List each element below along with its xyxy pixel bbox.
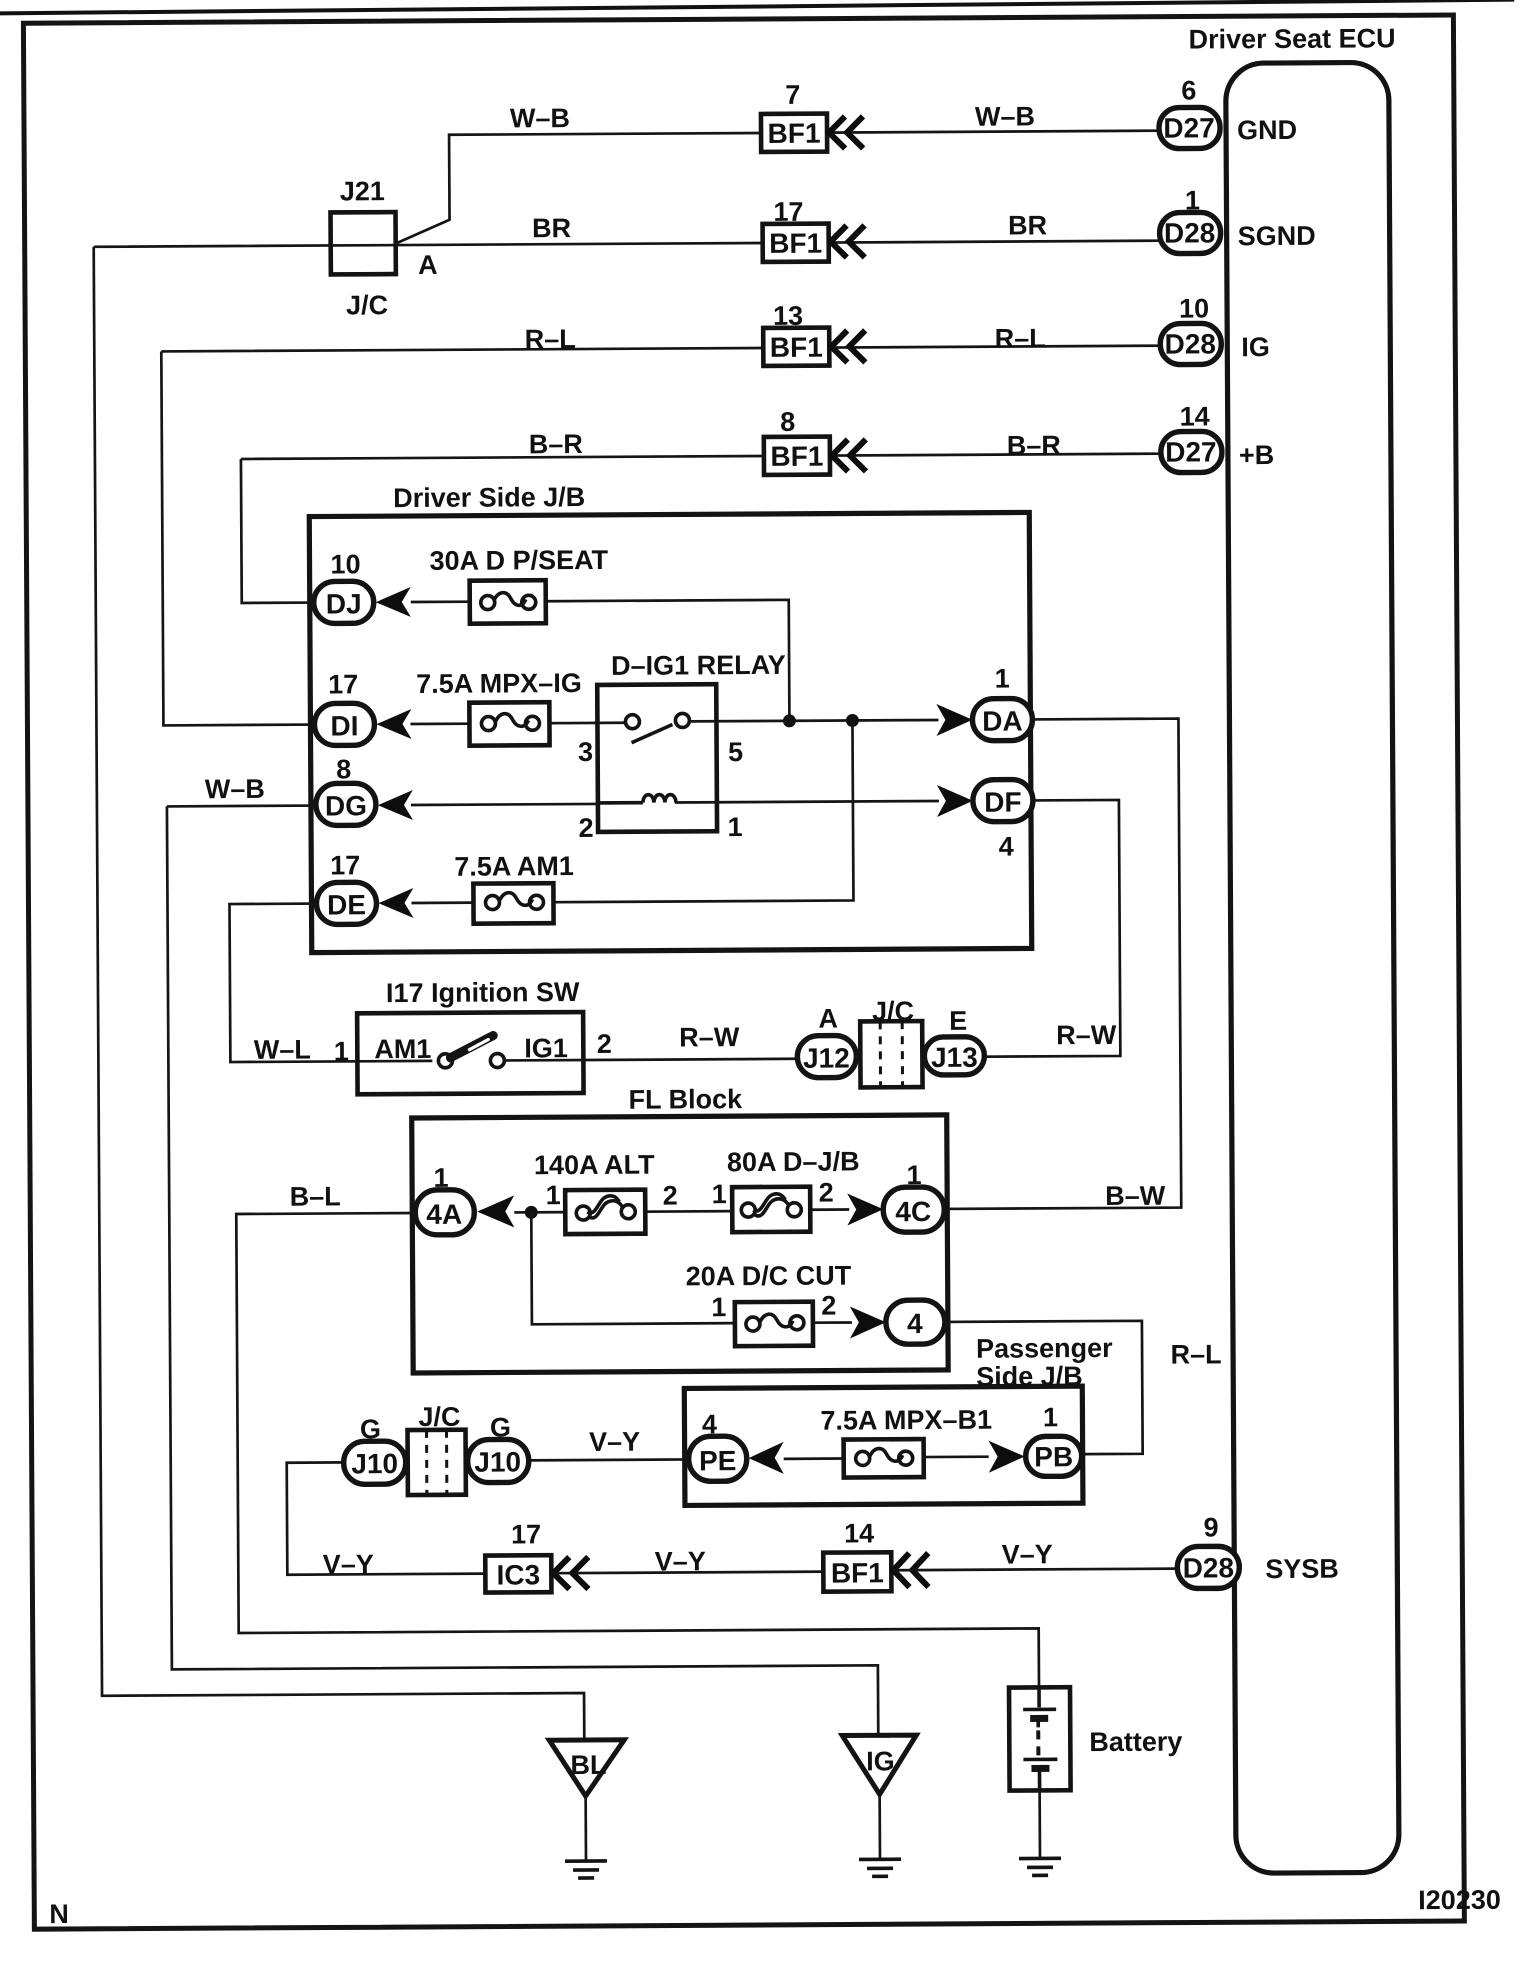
svg-text:DF: DF xyxy=(984,786,1022,817)
wire DJ row fuse to junction xyxy=(411,600,790,720)
svg-text:14: 14 xyxy=(1180,401,1210,431)
svg-text:DE: DE xyxy=(327,889,366,920)
connector BF1 pin 7 xyxy=(761,80,827,152)
arrow at DE xyxy=(378,888,413,918)
svg-text:2: 2 xyxy=(821,1291,836,1321)
svg-text:R–L: R–L xyxy=(995,323,1046,353)
wire V-Y BF1 to SYSB xyxy=(892,1569,1177,1571)
svg-text:B–W: B–W xyxy=(1105,1181,1166,1211)
svg-text:D28: D28 xyxy=(1164,217,1216,248)
svg-text:R–W: R–W xyxy=(1056,1020,1117,1050)
svg-text:W–B: W–B xyxy=(205,774,265,804)
svg-text:SYSB: SYSB xyxy=(1265,1554,1339,1584)
svg-text:1: 1 xyxy=(906,1160,921,1190)
svg-text:8: 8 xyxy=(780,407,795,437)
arrow at 4C xyxy=(847,1193,883,1225)
svg-text:4: 4 xyxy=(907,1308,923,1339)
connector BF1 pin 17 xyxy=(762,197,828,262)
svg-text:7.5A MPX–B1: 7.5A MPX–B1 xyxy=(820,1405,992,1436)
svg-text:+B: +B xyxy=(1239,440,1274,470)
svg-text:A: A xyxy=(818,1004,838,1034)
pin DG 8 xyxy=(316,754,376,825)
svg-text:2: 2 xyxy=(819,1178,834,1208)
fusible link 140A ALT xyxy=(534,1149,678,1234)
wire B-R down to DJ xyxy=(241,459,316,603)
svg-text:BL: BL xyxy=(570,1750,606,1780)
wire DE row to junction xyxy=(410,720,853,903)
svg-text:13: 13 xyxy=(773,301,803,331)
battery xyxy=(1009,1687,1183,1791)
svg-text:W–B: W–B xyxy=(510,103,570,133)
relay D-IG1 RELAY xyxy=(578,650,787,843)
svg-text:J10: J10 xyxy=(474,1446,521,1477)
ground at IG xyxy=(859,1859,901,1876)
ground point triangle IG xyxy=(842,1735,916,1794)
Passenger Side J/B box xyxy=(684,1333,1114,1505)
arrow at DJ xyxy=(376,587,411,617)
relay coil xyxy=(599,794,676,802)
fuse 7.5A MPX-B1 xyxy=(820,1405,992,1478)
ECU pin D27-6 GND xyxy=(1159,75,1297,149)
junction connector J21 J/C xyxy=(330,176,438,321)
svg-text:14: 14 xyxy=(844,1518,874,1548)
svg-text:17: 17 xyxy=(773,197,803,227)
svg-text:I20230: I20230 xyxy=(1418,1885,1501,1915)
wire R-L from 4 to PB xyxy=(945,1321,1143,1455)
svg-text:1: 1 xyxy=(1043,1402,1058,1432)
svg-text:R–W: R–W xyxy=(679,1022,740,1052)
svg-text:B–R: B–R xyxy=(1007,430,1061,460)
chevrons BF1 bottom xyxy=(893,1553,928,1587)
svg-text:J21: J21 xyxy=(340,176,385,206)
svg-text:7.5A AM1: 7.5A AM1 xyxy=(454,851,574,882)
wire BR down to ground point BL xyxy=(94,244,585,1743)
svg-text:4: 4 xyxy=(702,1409,717,1439)
svg-text:Driver Seat ECU: Driver Seat ECU xyxy=(1188,23,1395,54)
svg-text:AM1: AM1 xyxy=(374,1034,431,1064)
connector J10 pin G left xyxy=(343,1414,405,1484)
pin PB 1 xyxy=(1025,1402,1081,1476)
svg-text:10: 10 xyxy=(1179,293,1209,323)
FL Block box xyxy=(412,1083,949,1373)
svg-text:G: G xyxy=(490,1412,511,1442)
svg-text:1: 1 xyxy=(546,1180,561,1210)
arrow at 4A xyxy=(477,1195,514,1227)
wire IG1 to J12 xyxy=(504,1059,797,1061)
svg-text:BF1: BF1 xyxy=(831,1557,884,1588)
svg-text:17: 17 xyxy=(330,850,360,880)
svg-text:J13: J13 xyxy=(931,1042,978,1073)
pin DJ 10 xyxy=(313,549,373,623)
arrow at DI xyxy=(376,709,411,739)
wire 20A D/C CUT branch xyxy=(531,1210,852,1324)
junction dot at D/C CUT branch xyxy=(525,1206,538,1219)
svg-text:D28: D28 xyxy=(1164,328,1216,359)
arrow at DF xyxy=(937,785,973,817)
wire DG row xyxy=(167,801,939,806)
chevrons BF1 row 2 xyxy=(831,225,865,257)
pin 4C 1 xyxy=(883,1160,944,1232)
svg-text:J12: J12 xyxy=(803,1042,850,1073)
svg-text:D28: D28 xyxy=(1183,1552,1235,1583)
svg-text:BR: BR xyxy=(1008,210,1047,240)
pin DI 17 xyxy=(314,669,374,745)
chevrons BF1 row 1 xyxy=(829,116,863,148)
svg-text:4A: 4A xyxy=(426,1199,462,1230)
svg-text:1: 1 xyxy=(334,1036,349,1066)
wire J10 to PE xyxy=(529,1458,689,1462)
svg-text:D27: D27 xyxy=(1165,436,1217,467)
svg-text:3: 3 xyxy=(578,737,593,767)
svg-text:4: 4 xyxy=(999,832,1014,862)
svg-text:17: 17 xyxy=(511,1519,541,1549)
wire DE left to AM1 xyxy=(229,903,432,1062)
svg-text:80A D–J/B: 80A D–J/B xyxy=(727,1146,860,1177)
svg-text:V–Y: V–Y xyxy=(655,1546,706,1576)
wire DI row xyxy=(410,720,938,724)
svg-text:DG: DG xyxy=(325,790,367,821)
svg-text:DJ: DJ xyxy=(326,588,362,619)
ECU pin D28-1 SGND xyxy=(1159,185,1315,254)
svg-text:B–R: B–R xyxy=(529,429,583,459)
svg-text:30A D P/SEAT: 30A D P/SEAT xyxy=(429,545,608,576)
junction connector J/C at J12-J13 xyxy=(860,996,923,1087)
svg-text:B–L: B–L xyxy=(290,1181,341,1211)
ignition switch I17 xyxy=(253,977,612,1095)
svg-text:IG: IG xyxy=(1241,332,1270,362)
svg-text:PB: PB xyxy=(1034,1441,1073,1472)
wire B-L from 4A to battery xyxy=(236,1209,1039,1693)
svg-text:6: 6 xyxy=(1181,75,1196,105)
svg-text:BF1: BF1 xyxy=(769,228,822,259)
pin 4A 1 xyxy=(415,1163,474,1235)
wire PE row xyxy=(784,1457,989,1459)
connector J10 pin G right xyxy=(467,1412,528,1482)
svg-text:Side J/B: Side J/B xyxy=(976,1361,1083,1392)
fusible link 80A D-J/B xyxy=(711,1146,860,1232)
wire 4A row xyxy=(514,1209,849,1212)
wire W-B from DG down to ground point IG xyxy=(167,802,878,1739)
pin DF 4 xyxy=(973,779,1033,861)
svg-text:1: 1 xyxy=(711,1292,726,1322)
wire V-Y IC3 to BF1 xyxy=(552,1572,823,1574)
arrow at PB xyxy=(989,1440,1025,1472)
junction dot at AM1 feed xyxy=(846,714,859,727)
svg-text:1: 1 xyxy=(727,812,742,842)
ECU pin D28-9 SYSB xyxy=(1177,1512,1339,1589)
pin PE 4 xyxy=(688,1409,746,1481)
svg-text:BF1: BF1 xyxy=(770,441,823,472)
wire J10 to V-Y row xyxy=(287,1462,486,1575)
fuse 30A D P/SEAT xyxy=(429,545,608,624)
svg-text:9: 9 xyxy=(1203,1512,1218,1542)
svg-text:R–L: R–L xyxy=(525,324,576,354)
svg-text:140A ALT: 140A ALT xyxy=(534,1150,655,1181)
wire battery to ground xyxy=(1038,1790,1041,1858)
svg-text:2: 2 xyxy=(578,813,593,843)
svg-text:J/C: J/C xyxy=(346,290,388,320)
svg-text:IC3: IC3 xyxy=(496,1559,540,1590)
wire R-L to IG pin xyxy=(161,346,1162,352)
junction connector J/C at J10 xyxy=(407,1402,466,1495)
svg-text:Battery: Battery xyxy=(1089,1727,1182,1758)
ground at battery xyxy=(1019,1858,1061,1875)
svg-text:GND: GND xyxy=(1237,115,1297,145)
pin 4 xyxy=(886,1300,945,1344)
svg-text:I17 Ignition SW: I17 Ignition SW xyxy=(386,977,580,1008)
svg-text:V–Y: V–Y xyxy=(589,1427,640,1457)
arrow at DG xyxy=(378,790,413,820)
pin DA 1 xyxy=(972,663,1032,740)
ECU pin D27-14 +B xyxy=(1161,401,1275,473)
connector IC3 pin 17 xyxy=(485,1519,551,1592)
svg-text:2: 2 xyxy=(663,1180,678,1210)
svg-text:BF1: BF1 xyxy=(768,118,821,149)
svg-text:10: 10 xyxy=(330,549,360,579)
svg-text:R–L: R–L xyxy=(1171,1339,1222,1369)
svg-text:E: E xyxy=(949,1006,967,1036)
chevrons IC3 xyxy=(553,1557,588,1589)
svg-text:G: G xyxy=(360,1414,381,1444)
svg-text:W–B: W–B xyxy=(975,101,1035,131)
svg-text:4C: 4C xyxy=(895,1196,931,1227)
wire R-W from J13 up to DF xyxy=(983,800,1120,1057)
svg-text:20A D/C CUT: 20A D/C CUT xyxy=(686,1260,852,1291)
svg-text:Passenger: Passenger xyxy=(976,1333,1113,1364)
svg-text:D27: D27 xyxy=(1163,112,1215,143)
ground point triangle BL xyxy=(549,1740,624,1796)
svg-text:V–Y: V–Y xyxy=(323,1549,374,1579)
wire B-W from DA to 4C xyxy=(941,719,1181,1209)
svg-text:D–IG1 RELAY: D–IG1 RELAY xyxy=(611,650,786,681)
connector J12 pin A xyxy=(797,1003,856,1077)
Driver Side J/B box xyxy=(309,479,1032,952)
pin DE 17 xyxy=(316,850,376,924)
fuse 7.5A AM1 xyxy=(454,851,574,924)
svg-text:1: 1 xyxy=(1185,185,1200,215)
connector BF1 pin 14 xyxy=(823,1518,891,1591)
svg-text:1: 1 xyxy=(433,1163,448,1193)
arrow at PE xyxy=(749,1442,784,1474)
chevrons BF1 row 4 xyxy=(832,439,866,471)
fuse 20A D/C CUT xyxy=(686,1260,853,1346)
wire IG to ground xyxy=(878,1794,881,1859)
Driver Seat ECU box xyxy=(1188,23,1406,1873)
svg-text:FL Block: FL Block xyxy=(629,1084,744,1115)
svg-text:Driver Side J/B: Driver Side J/B xyxy=(393,482,585,513)
connector BF1 pin 8 xyxy=(764,407,830,475)
svg-text:1: 1 xyxy=(712,1179,727,1209)
svg-text:5: 5 xyxy=(728,737,743,767)
fuse 7.5A MPX-IG xyxy=(416,668,582,746)
svg-text:BF1: BF1 xyxy=(770,332,823,363)
svg-text:7.5A MPX–IG: 7.5A MPX–IG xyxy=(416,668,582,699)
wire B-R to +B pin xyxy=(241,454,1163,459)
svg-text:BR: BR xyxy=(532,213,571,243)
wire BL to ground xyxy=(584,1796,587,1861)
ECU pin D28-10 IG xyxy=(1160,293,1270,365)
junction dot at 30A feed xyxy=(783,714,796,727)
svg-text:A: A xyxy=(418,250,438,280)
svg-text:7: 7 xyxy=(785,80,800,110)
wire W-B to GND pin via J21 pin A xyxy=(396,131,1162,243)
svg-text:DI: DI xyxy=(330,710,358,741)
svg-text:SGND: SGND xyxy=(1238,221,1316,251)
connector BF1 pin 13 xyxy=(763,301,829,366)
svg-text:N: N xyxy=(49,1899,69,1929)
svg-text:J10: J10 xyxy=(351,1448,398,1479)
svg-text:17: 17 xyxy=(328,669,358,699)
svg-text:8: 8 xyxy=(336,754,351,784)
svg-text:J/C: J/C xyxy=(418,1402,460,1432)
svg-text:2: 2 xyxy=(597,1029,612,1059)
svg-text:PE: PE xyxy=(699,1445,737,1476)
svg-text:DA: DA xyxy=(982,705,1023,736)
svg-text:J/C: J/C xyxy=(872,996,914,1026)
wire BR from J21 to SGND pin xyxy=(94,241,1162,247)
ground at BL xyxy=(565,1861,607,1878)
chevrons BF1 row 3 xyxy=(831,330,865,362)
arrow at DA xyxy=(936,704,972,736)
svg-text:1: 1 xyxy=(995,664,1010,694)
connector J13 pin E xyxy=(924,1006,984,1075)
svg-text:W–L: W–L xyxy=(254,1035,311,1065)
wire R-L down to DI xyxy=(161,351,316,726)
svg-text:V–Y: V–Y xyxy=(1002,1539,1053,1569)
arrow at 4 xyxy=(850,1306,886,1338)
svg-text:IG: IG xyxy=(866,1746,895,1776)
